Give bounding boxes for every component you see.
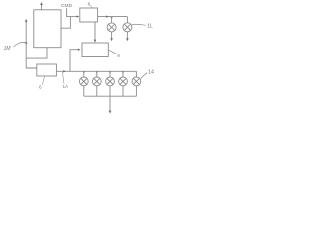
valve V2 (top row right) [123, 23, 132, 32]
wire (pump output manifold line) [56, 70, 136, 72]
svg-text:9: 9 [117, 53, 120, 58]
node (tee at bottom valve W4) [122, 72, 124, 74]
node (tee at bottom valve W1) [83, 72, 85, 74]
wire (stub to valve W5) [135, 71, 137, 77]
wire (leader from label 1M) [14, 42, 27, 47]
arrow (flow right on top bus) [106, 15, 109, 17]
wire (leader to label 1L) [132, 24, 146, 25]
wire (vent line up from controller top) [41, 5, 43, 10]
valve W5 (bottom row) [132, 77, 141, 86]
svg-text:8: 8 [88, 2, 91, 7]
wire (stub to valve V2) [126, 17, 128, 23]
valve W1 (bottom row) [79, 77, 88, 86]
arrow (return outlet down) [109, 111, 112, 114]
wire (W2 drop to return bus) [96, 86, 98, 96]
svg-text:6: 6 [39, 85, 42, 91]
controller box U1 [34, 10, 61, 48]
wire (controller right output rising to driver input) [61, 17, 70, 29]
arrow (into plant box top) [94, 40, 97, 43]
wire (leader from label 1A) [63, 72, 64, 84]
arrow (into plant box left) [78, 49, 81, 51]
wire (leader from label 8) [91, 5, 92, 8]
wire (driver down-feed to plant box) [94, 22, 96, 40]
wire (leader to label 9) [108, 50, 116, 54]
wire (return outlet drop) [109, 96, 111, 111]
arrow (leader tip at supply line) [25, 42, 28, 44]
wire (V1 exhaust) [111, 32, 113, 39]
wire (leader to label 14) [141, 73, 148, 79]
svg-text:1L: 1L [147, 23, 153, 29]
svg-text:CMD: CMD [61, 3, 73, 9]
wire (return bus) [84, 95, 137, 97]
arrow (V1 exhaust down) [110, 38, 113, 41]
arrow (flow right on manifold) [63, 70, 66, 72]
driver box U2 [80, 8, 98, 22]
wire (supply line left of controller with vent at top) [26, 21, 37, 68]
wire (driver output bus to top valves) [98, 16, 128, 18]
wire (riser from manifold to plant box input) [70, 50, 79, 72]
node (tee at bottom valve W2) [96, 72, 98, 74]
wire (stub to valve W1) [83, 71, 85, 77]
arrow (up at supply vent) [25, 19, 28, 22]
arrow (V2 exhaust down) [126, 38, 129, 41]
wire (W4 drop to return bus) [122, 86, 124, 96]
arrow (into driver box left) [77, 15, 80, 17]
valve W3 (bottom row) [106, 77, 115, 86]
valve W2 (bottom row) [92, 77, 101, 86]
arrow (up at controller vent) [40, 2, 43, 5]
wire (leader from label 6) [42, 76, 44, 84]
wire (CMD signal drop) [67, 8, 78, 16]
wire (W1 drop to return bus) [83, 86, 85, 96]
node (junction tee at top valve V1) [111, 17, 113, 19]
wire (W3 drop to return bus) [109, 86, 111, 96]
valve W4 (bottom row) [119, 77, 128, 86]
wire (stub to valve W2) [96, 71, 98, 77]
wire (W5 drop to return bus) [135, 86, 137, 96]
wire (controller bottom drop to supply line) [26, 48, 47, 58]
node (tee at bottom valve W3) [109, 72, 111, 74]
svg-text:14: 14 [148, 70, 154, 76]
wire (V2 exhaust) [126, 32, 128, 39]
wire (stub to valve V1) [111, 17, 113, 23]
svg-text:1M: 1M [4, 46, 12, 52]
wire (stub to valve W3) [109, 71, 111, 77]
pump box U4 [37, 64, 57, 76]
svg-text:1A: 1A [63, 84, 70, 89]
plant box U3 [82, 43, 108, 57]
valve V1 (top row left) [107, 23, 116, 32]
wire (stub to valve W4) [122, 71, 124, 77]
